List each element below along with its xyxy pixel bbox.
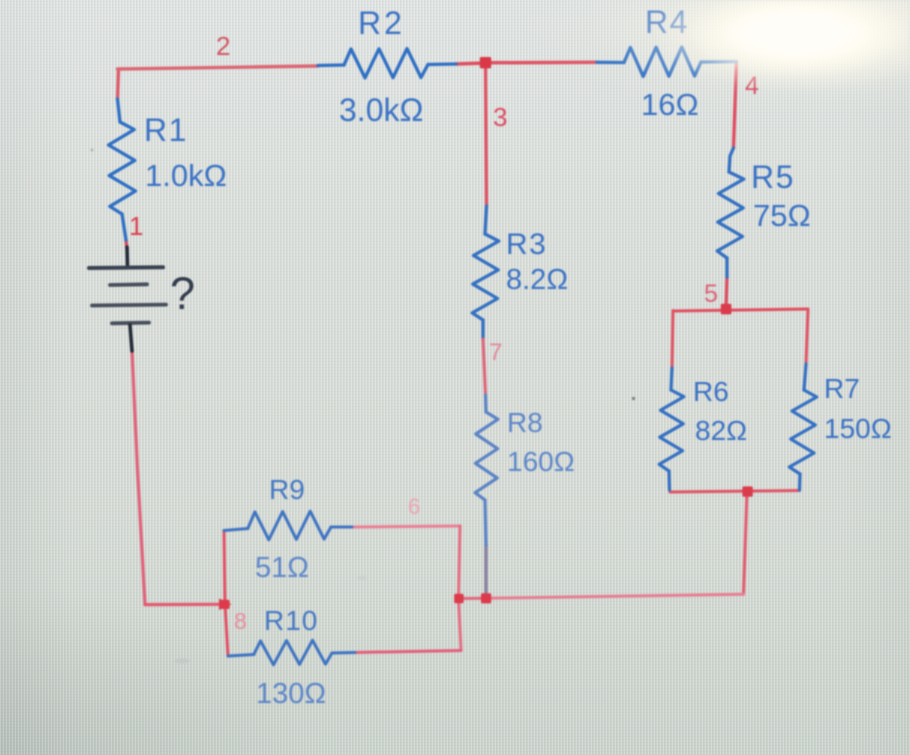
svg-text:R10: R10 xyxy=(264,605,318,636)
wire: top-left corner vertical segment node 2 xyxy=(118,70,119,100)
junction dot node 5 xyxy=(721,304,732,315)
svg-text:82Ω: 82Ω xyxy=(695,415,747,446)
junction dot below R8 xyxy=(481,593,491,603)
svg-text:130Ω: 130Ω xyxy=(256,678,326,710)
svg-text:2: 2 xyxy=(216,31,230,61)
svg-text:8.2Ω: 8.2Ω xyxy=(506,264,568,296)
wire: R9/R10 box left edge (node 8) xyxy=(224,531,228,657)
svg-text:R1: R1 xyxy=(144,112,188,148)
svg-text:1.0kΩ: 1.0kΩ xyxy=(145,158,227,193)
wire: R9 right to box corner (node 6) xyxy=(352,526,460,527)
wire: R8 bottom to junction (muted) xyxy=(484,545,487,594)
svg-text:3: 3 xyxy=(493,102,507,132)
svg-text:4: 4 xyxy=(745,72,759,100)
resistor R4 xyxy=(597,47,737,76)
wire: vertical node 3 down to R3 xyxy=(486,63,487,206)
resistor R1 xyxy=(109,99,136,240)
svg-text:16Ω: 16Ω xyxy=(641,87,699,122)
svg-text:6: 6 xyxy=(408,494,420,519)
wire: box right edge to R7 xyxy=(806,310,808,365)
wire: box bottom horizontal R6-R7 xyxy=(670,491,800,493)
svg-text:R2: R2 xyxy=(358,5,405,41)
wire: bottom horizontal into node 8 xyxy=(145,603,225,606)
svg-text:R6: R6 xyxy=(693,376,729,407)
svg-text:R3: R3 xyxy=(506,228,547,261)
svg-text:R7: R7 xyxy=(824,373,860,404)
junction dot on R9/R10 box right edge xyxy=(454,594,463,603)
resistor R5 xyxy=(717,148,744,277)
wire: vertical from bottom box junction down xyxy=(744,492,748,595)
wire: between R2 and node 3 junction xyxy=(456,63,486,64)
wire: node 5 box top horizontal xyxy=(673,309,808,311)
junction dot node 3 xyxy=(480,57,491,68)
wire: horizontal between box right edge and R8 junction xyxy=(459,597,487,600)
resistor R3 xyxy=(472,206,499,339)
battery V1 plate 4 (short negative) xyxy=(112,321,149,325)
svg-text:5: 5 xyxy=(704,280,718,308)
svg-text:R4: R4 xyxy=(645,4,689,40)
resistor R2 xyxy=(318,49,456,78)
wire: long bottom horizontal to R8 junction xyxy=(486,594,744,598)
resistor R7 xyxy=(789,364,816,490)
wire: short red above battery (node 1) xyxy=(126,240,127,249)
wire: R4 right corner down to R5 (node 4) xyxy=(734,62,737,149)
svg-text:R5: R5 xyxy=(751,159,795,195)
wire: R5 bottom to node 5 xyxy=(726,277,727,309)
resistor R9 xyxy=(224,511,352,540)
svg-text:8: 8 xyxy=(234,608,247,634)
resistor R10 xyxy=(228,640,355,665)
svg-text:R9: R9 xyxy=(269,474,305,505)
svg-text:150Ω: 150Ω xyxy=(824,413,892,444)
wire: node 7 red segment between R3 and R8 xyxy=(483,339,486,395)
wire: R10 right to box corner xyxy=(355,651,461,653)
svg-text:1: 1 xyxy=(129,211,143,241)
battery V1 plate 3 (long positive) xyxy=(92,303,166,308)
wire: R9/R10 box right edge xyxy=(459,526,462,651)
junction dot bottom of R6/R7 box xyxy=(742,486,752,496)
svg-text:7: 7 xyxy=(489,339,502,366)
battery V1 top lead xyxy=(125,247,129,266)
wire: node 3 junction to R4 xyxy=(485,61,597,65)
svg-text:R8: R8 xyxy=(507,407,543,438)
svg-text:75Ω: 75Ω xyxy=(753,198,811,233)
resistor R6 xyxy=(659,368,684,490)
junction dot node 8 xyxy=(219,599,232,611)
svg-text:?: ? xyxy=(170,268,195,319)
battery V1 plate 1 (long positive) xyxy=(89,265,163,270)
svg-text:51Ω: 51Ω xyxy=(255,552,309,584)
battery V1 bottom lead xyxy=(130,325,132,351)
wire: battery bottom down the left side xyxy=(132,351,145,605)
wire: box left edge to R6 xyxy=(672,311,673,369)
resistor R8 xyxy=(475,395,498,545)
svg-text:160Ω: 160Ω xyxy=(507,446,575,477)
svg-text:3.0kΩ: 3.0kΩ xyxy=(339,92,423,128)
battery V1 plate 2 (short negative) xyxy=(110,282,147,287)
wire: top horizontal from corner to R2 (node 2) xyxy=(118,66,319,69)
